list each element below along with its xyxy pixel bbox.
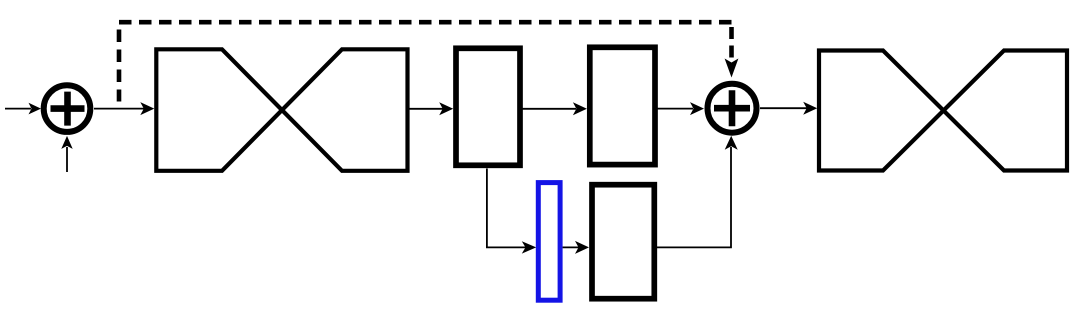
interleaver P2 (bowtie block) [819, 51, 1067, 171]
arrowhead into B4 [575, 241, 589, 254]
arrowhead into B2 [573, 102, 587, 115]
arrowhead into P2 [803, 102, 817, 115]
block B1 [456, 48, 520, 165]
dashed feedback: top horizontal run [119, 20, 732, 25]
wire: B4 to riser up into S2 bottom [657, 147, 732, 247]
blue block B3 [538, 183, 560, 301]
summing junction S2 [708, 84, 757, 133]
wire: branch from B1 bottom, down and right [487, 169, 527, 248]
wire: input line into summer S1 [5, 108, 31, 110]
wire: B2 to summer S2 [655, 108, 693, 110]
wire: S2 to interleaver P2 [760, 107, 807, 109]
block B2 [590, 47, 655, 164]
arrowhead into S2 bottom [725, 136, 738, 150]
arrowhead into P1 [140, 102, 154, 115]
wire: B3 to block B4 [563, 246, 579, 248]
dashed feedback: right vertical drop (two dashes) [729, 27, 734, 39]
arrowhead of dashed feedback into S2 top [725, 59, 739, 78]
wire: P1 to block B1 [408, 108, 444, 110]
interleaver P1 (bowtie block) [156, 49, 407, 171]
summing junction S1 [44, 85, 91, 132]
arrowhead into B1 [439, 102, 453, 115]
arrowhead into blue block B3 [522, 241, 536, 253]
arrowhead into S1 bottom [61, 136, 72, 149]
wire: B1 to block B2 [520, 108, 576, 110]
wire: bottom input into S1 [66, 147, 68, 172]
dashed feedback: tap vertical at left [117, 30, 122, 102]
arrowhead into S2 left [690, 102, 704, 115]
wire: S1 to interleaver P1 [94, 108, 144, 110]
arrowhead into S1 left [29, 103, 42, 115]
block B4 [592, 185, 654, 299]
